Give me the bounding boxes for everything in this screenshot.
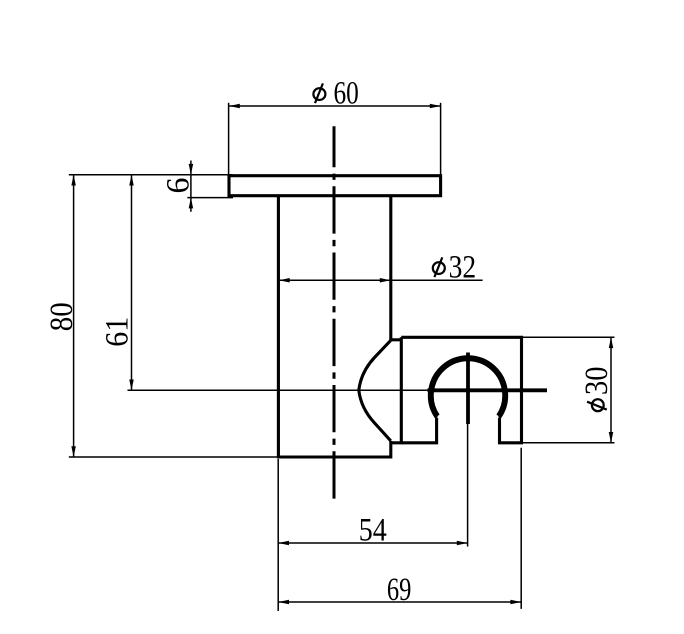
svg-text:60: 60	[334, 75, 359, 111]
svg-text:32: 32	[449, 249, 477, 285]
svg-text:30: 30	[579, 367, 615, 396]
svg-text:61: 61	[99, 317, 135, 347]
svg-text:54: 54	[359, 513, 387, 549]
svg-text:80: 80	[44, 302, 80, 331]
svg-text:69: 69	[387, 572, 412, 608]
svg-text:6: 6	[161, 178, 197, 194]
